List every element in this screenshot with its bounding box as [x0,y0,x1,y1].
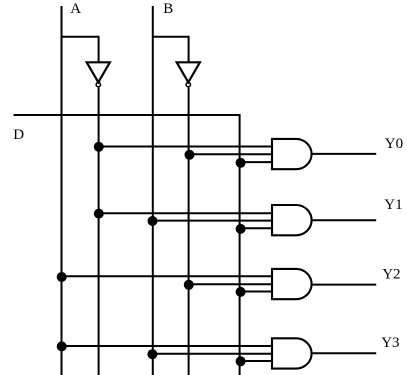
svg-text:Y3: Y3 [381,335,399,351]
svg-text:Y1: Y1 [384,197,402,213]
svg-text:Y2: Y2 [382,267,400,283]
svg-text:D: D [13,127,24,143]
svg-text:Y0: Y0 [385,136,403,152]
svg-text:B: B [163,1,173,17]
svg-text:A: A [70,1,81,17]
